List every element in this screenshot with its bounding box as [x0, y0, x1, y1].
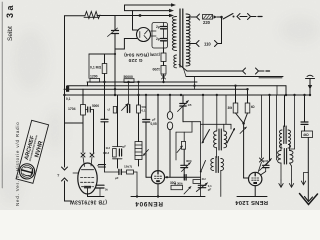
bottom rail	[131, 196, 205, 198]
left end component on bus2	[66, 86, 69, 92]
T2b switch contact	[201, 161, 206, 172]
speaker terminals	[279, 180, 283, 187]
grid arrow	[240, 127, 247, 134]
T2 primary	[214, 131, 217, 148]
pickup input terminals left	[62, 167, 68, 170]
audio tube V3 REN904	[151, 171, 164, 184]
heater winding bottom	[174, 55, 177, 68]
tube label G220 (RGN504) rotated	[124, 51, 149, 63]
grid cap with arrow right of V4	[269, 95, 271, 161]
junction	[139, 14, 142, 17]
primary tap wires with arrows	[125, 4, 173, 6]
earth arrow bottom right	[307, 138, 309, 202]
V1 to block wires	[151, 30, 156, 32]
switch contacts right	[227, 129, 235, 144]
right feed drop from HT line	[285, 86, 287, 95]
variable capacitor mid (tone)	[182, 95, 184, 104]
tone preset cap bottom	[198, 184, 205, 186]
series cap + resistor row below V2	[104, 168, 106, 172]
heater x mark above V4	[261, 95, 263, 158]
aerial lead left, down the margin	[65, 15, 86, 17]
NVHR round logo emblem	[18, 162, 37, 181]
rail2 y=85.7	[67, 85, 286, 87]
trimmer arrow	[108, 28, 118, 37]
resistor left of T2b	[193, 180, 201, 184]
screen feed drop	[276, 95, 278, 160]
resistor R4 in HT line	[124, 79, 134, 83]
detector tube V2	[78, 163, 97, 194]
screen resistors right	[235, 86, 237, 103]
core	[179, 9, 181, 67]
output choke top	[284, 95, 286, 127]
choke tap arrow	[143, 150, 149, 156]
page title "Seibt 3a" vertical	[5, 4, 15, 41]
AF transformer T2 box area	[202, 95, 204, 142]
V1 anode lead	[133, 11, 138, 30]
grid resistor column x=83	[82, 89, 84, 104]
resistor + RF choke column x=138.5	[138, 95, 140, 105]
T2b lower transformer	[211, 159, 214, 171]
primary winding	[172, 17, 176, 51]
cap with boxed label right	[304, 95, 306, 122]
left margin border	[1, 2, 3, 188]
drops from HT bus	[128, 82, 130, 105]
V3 label	[135, 200, 163, 207]
capacitor C1 2uF	[163, 23, 165, 27]
secondary winding	[186, 14, 190, 66]
V1 cathode lead	[115, 39, 137, 50]
110V tap row	[188, 43, 196, 45]
bus_top left drop	[87, 82, 89, 86]
V2 label	[70, 198, 107, 204]
antenna terminal	[309, 79, 311, 95]
anode cap column x=146	[145, 95, 147, 120]
heater x marks	[81, 153, 85, 157]
switch contacts left	[202, 130, 210, 144]
plug connector	[237, 14, 240, 20]
grid cap	[87, 107, 89, 112]
bus 2 y=89.2	[64, 88, 248, 90]
output transformer T3	[278, 151, 281, 164]
220V tap row	[188, 16, 196, 18]
series capacitor on antenna lead	[114, 16, 116, 31]
resistor R5 0,1M vertical	[104, 54, 106, 64]
heater lead diagonal	[179, 65, 187, 72]
resistor (barretter) top-left	[85, 12, 100, 19]
margin text "Ned. Ver. v. Historie v/d Radio" vertical	[15, 121, 20, 206]
cathode lead down	[87, 194, 89, 197]
branch to grid resistor column	[65, 122, 84, 124]
fuse 220	[203, 15, 213, 20]
bus 3 y=95	[64, 94, 311, 96]
capacitor C2 2uF	[163, 29, 165, 39]
switch S1	[223, 14, 233, 20]
HT bus (top) y=82.5	[87, 81, 197, 83]
grid leak combo x=117.5	[117, 95, 119, 147]
T2 connections	[216, 95, 218, 131]
resistor R3 in HT line	[90, 78, 100, 82]
rectifier tube V1 RGN504	[137, 28, 151, 42]
bypass cap	[96, 184, 104, 186]
NVHR archive stamp	[16, 120, 49, 183]
cathode resistor + arrow right of V3	[171, 185, 183, 189]
x mark	[162, 75, 166, 79]
coupling cap on x=104.5 column	[101, 118, 108, 120]
heater line B	[183, 67, 186, 77]
grid column for V3	[157, 95, 159, 171]
filter capacitor block	[152, 23, 168, 49]
junction dots on buses	[103, 81, 105, 83]
output tube V4 RENS1204	[249, 172, 262, 185]
V4 label	[235, 199, 268, 205]
resistor R2 1200 vertical under block	[163, 48, 165, 53]
loop choke column x=170	[169, 95, 171, 112]
heater line A with speaker connector	[187, 70, 242, 72]
